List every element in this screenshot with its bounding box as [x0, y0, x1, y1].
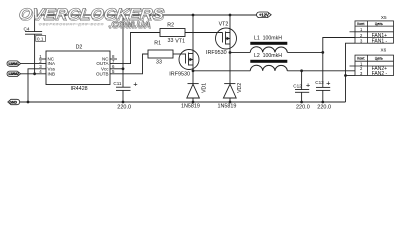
wire +12V top rail: [35, 14, 257, 16]
wire R2 to VT2 gate: [185, 32, 223, 34]
svg-text:ШИМ1: ШИМ1: [8, 62, 19, 66]
wire FAN minus return: [346, 43, 356, 102]
node VT1 drain junction: [192, 69, 195, 72]
node L1-C13-FAN1 junction: [321, 51, 324, 54]
svg-text:VT1: VT1: [175, 39, 185, 45]
wire VT2 to L1: [230, 51, 250, 53]
svg-text:INB: INB: [48, 71, 56, 76]
svg-text:X5: X5: [381, 15, 387, 20]
connector table X5: [350, 21, 394, 43]
svg-text:+12V: +12V: [259, 12, 269, 17]
wire X5 pin1 stub: [350, 31, 356, 33]
wire ground rail: [20, 101, 346, 103]
node L2-C12 junction: [300, 69, 303, 72]
connector tag GND: [8, 99, 20, 104]
svg-text:33: 33: [168, 38, 174, 44]
inductor L2: [250, 60, 287, 71]
wire +12V tag lead: [230, 14, 257, 16]
pin numbers right: [112, 54, 115, 74]
svg-text:220.0: 220.0: [317, 105, 331, 111]
svg-text:0.1: 0.1: [37, 37, 44, 42]
node C4-INB junction: [33, 72, 36, 75]
svg-text:1N5819: 1N5819: [181, 104, 200, 110]
diode VD2 1N5819: [223, 53, 236, 103]
svg-text:IR4428: IR4428: [71, 86, 88, 92]
wire L2 to X6: [287, 70, 355, 72]
svg-text:Конт.: Конт.: [357, 22, 365, 26]
svg-text:.COM.UA: .COM.UA: [109, 19, 151, 29]
capacitor C12: [295, 71, 309, 102]
svg-text:+: +: [306, 80, 311, 89]
svg-text:IRF9530: IRF9530: [206, 50, 227, 56]
transistor VT2 IRF9530: [216, 15, 237, 53]
wire C4 top lead: [34, 15, 36, 32]
svg-text:ОВЕРКЛОКИНГ ДЛЯ ВСЕХ: ОВЕРКЛОКИНГ ДЛЯ ВСЕХ: [39, 23, 104, 27]
svg-text:1N5819: 1N5819: [218, 104, 237, 110]
resistor R1: [148, 50, 173, 58]
wire PWM1 to INA: [21, 63, 46, 65]
capacitor C11: [116, 69, 131, 102]
svg-text:Цепь: Цепь: [375, 22, 383, 26]
node rail-VT1 junction: [192, 14, 195, 17]
connector tag +12V: [257, 12, 272, 18]
pin 1 stub: [39, 58, 46, 60]
svg-text:VD1: VD1: [201, 83, 207, 93]
svg-text:L1 100mkH: L1 100mkH: [254, 35, 282, 41]
svg-text:C13: C13: [315, 80, 324, 85]
inductor L1: [250, 42, 287, 53]
node gnd-Vss junction: [27, 101, 30, 104]
svg-text:C12: C12: [293, 84, 302, 89]
svg-text:220.0: 220.0: [117, 105, 131, 111]
wire OUTB to R1: [110, 54, 148, 74]
wire OUTA to R2: [110, 33, 160, 64]
svg-text:L2 100mkH: L2 100mkH: [254, 53, 282, 59]
svg-text:+: +: [326, 78, 331, 87]
node gnd-VD1 junction: [192, 101, 195, 104]
wire Vcc right: [110, 68, 123, 70]
wire Vss to ground: [28, 69, 46, 102]
svg-text:X6: X6: [381, 48, 387, 53]
svg-text:R1: R1: [154, 40, 161, 46]
node gnd-VD2 junction: [229, 101, 232, 104]
connector table X6: [350, 55, 394, 75]
resistor R2: [160, 29, 185, 37]
svg-text:GND: GND: [9, 101, 17, 105]
table X5 texts: [357, 22, 387, 44]
node gnd-C12 junction: [300, 101, 303, 104]
wire PWM2 to INB: [21, 73, 46, 75]
diode VD1 1N5819: [187, 71, 200, 102]
watermark overclockers.com.ua: [18, 6, 166, 30]
svg-text:ШИМ2: ШИМ2: [8, 72, 19, 76]
wire R1 to VT1 gate: [173, 53, 186, 55]
capacitor C4: [25, 32, 42, 35]
node gnd-C13 junction: [321, 101, 324, 104]
svg-text:+: +: [133, 79, 138, 88]
svg-text:220.0: 220.0: [296, 105, 310, 111]
wire FAN2 minus stub: [346, 75, 356, 77]
connector tag PWM1: [7, 61, 21, 66]
svg-text:Конт.: Конт.: [357, 57, 365, 61]
wire L1 to node: [287, 51, 323, 53]
svg-text:OUTB: OUTB: [96, 71, 109, 76]
pin names D2: [48, 57, 110, 77]
wire VT1 to L2: [193, 70, 250, 72]
capacitor C13: [316, 52, 330, 102]
pin numbers left: [39, 54, 42, 74]
svg-text:VD2: VD2: [237, 83, 243, 93]
connector tag PWM2: [7, 71, 21, 76]
node Vcc junction: [122, 67, 125, 70]
transistor VT1 IRF9530: [179, 15, 199, 71]
svg-text:Цепь: Цепь: [375, 57, 383, 61]
svg-text:C4: C4: [24, 26, 30, 31]
svg-text:33: 33: [156, 59, 162, 65]
value box 0.1: [36, 35, 46, 41]
node rail-VT2 junction: [229, 14, 232, 17]
svg-text:R2: R2: [167, 23, 174, 29]
svg-text:C11: C11: [113, 81, 122, 86]
node rail-Vcc junction: [122, 14, 125, 17]
svg-text:VT2: VT2: [219, 22, 229, 28]
pin 8 stub: [110, 58, 117, 60]
node VT2 drain junction: [229, 51, 232, 54]
wire FAN1+ riser: [323, 38, 355, 53]
svg-text:FAN2 -: FAN2 -: [372, 71, 388, 77]
svg-text:FAN1 -: FAN1 -: [372, 39, 388, 45]
svg-text:IRF9530: IRF9530: [169, 71, 190, 77]
wire C4 bottom lead: [34, 34, 36, 74]
node gnd-C11 junction: [122, 101, 125, 104]
svg-text:D2: D2: [76, 45, 83, 51]
table X6 texts: [357, 57, 387, 77]
node FAN2- junction: [344, 74, 347, 77]
wire Vcc to +12V rail: [122, 15, 124, 69]
wire X6 pin1 stub: [350, 65, 356, 67]
IC D2 IR4428 body: [46, 51, 110, 85]
